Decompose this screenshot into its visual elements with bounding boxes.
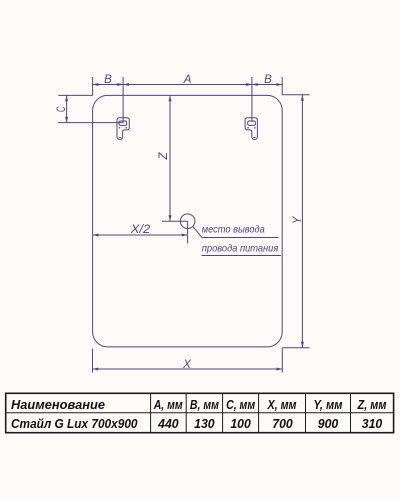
svg-text:900: 900 — [318, 417, 339, 431]
svg-text:Х, мм: Х, мм — [267, 398, 297, 412]
svg-text:130: 130 — [194, 417, 215, 431]
svg-text:B: B — [264, 74, 272, 86]
svg-text:100: 100 — [230, 417, 251, 431]
svg-text:место вывода: место вывода — [202, 224, 265, 236]
svg-text:Наименование: Наименование — [11, 398, 105, 412]
svg-text:310: 310 — [362, 417, 383, 431]
svg-text:Стайл G Lux 700x900: Стайл G Lux 700x900 — [11, 417, 138, 431]
svg-text:B: B — [104, 74, 112, 86]
svg-text:C: C — [56, 106, 68, 112]
svg-text:Y: Y — [292, 215, 304, 224]
svg-text:Z: Z — [158, 152, 170, 161]
svg-text:Z, мм: Z, мм — [357, 398, 387, 412]
svg-text:A: A — [183, 74, 192, 86]
svg-text:Y, мм: Y, мм — [314, 398, 343, 412]
svg-text:С, мм: С, мм — [226, 398, 255, 412]
svg-text:X: X — [182, 359, 192, 371]
svg-text:440: 440 — [157, 417, 179, 431]
svg-text:провода питания: провода питания — [202, 242, 279, 254]
svg-text:В, мм: В, мм — [190, 398, 219, 412]
svg-text:А, мм: А, мм — [153, 398, 183, 412]
svg-text:X/2: X/2 — [130, 224, 151, 236]
svg-text:700: 700 — [272, 417, 293, 431]
